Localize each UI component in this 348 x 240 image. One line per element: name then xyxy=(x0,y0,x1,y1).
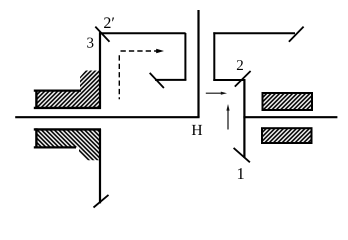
svg-text:2′: 2′ xyxy=(103,15,115,32)
svg-text:3: 3 xyxy=(87,35,95,51)
svg-text:H: H xyxy=(191,122,202,139)
svg-text:2: 2 xyxy=(236,58,244,74)
svg-text:1: 1 xyxy=(237,164,245,183)
